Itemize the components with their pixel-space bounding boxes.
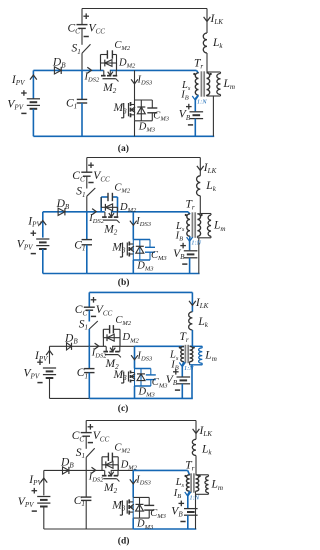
svg-text:IDS3: IDS3 bbox=[137, 74, 153, 86]
svg-text:DB: DB bbox=[60, 456, 74, 469]
svg-text:DB: DB bbox=[64, 332, 78, 345]
svg-text:(a): (a) bbox=[118, 143, 129, 154]
svg-text:IDS2: IDS2 bbox=[88, 213, 104, 225]
svg-text:S1: S1 bbox=[72, 43, 81, 56]
svg-text:CM2: CM2 bbox=[114, 183, 130, 195]
svg-text:Ls: Ls bbox=[181, 80, 191, 92]
svg-text:ILK: ILK bbox=[203, 162, 218, 175]
svg-text:CM3: CM3 bbox=[151, 250, 167, 262]
svg-text:C1: C1 bbox=[74, 239, 85, 252]
svg-text:Tr: Tr bbox=[180, 331, 189, 344]
svg-text:VCC: VCC bbox=[93, 430, 110, 443]
svg-text:1:N: 1:N bbox=[191, 240, 201, 247]
svg-text:(b): (b) bbox=[118, 277, 130, 288]
svg-text:CM2: CM2 bbox=[115, 315, 131, 327]
svg-text:ILK: ILK bbox=[210, 13, 225, 26]
svg-text:VB: VB bbox=[166, 374, 178, 387]
svg-text:Lk: Lk bbox=[212, 37, 223, 50]
svg-text:M2: M2 bbox=[102, 82, 117, 95]
svg-text:DB: DB bbox=[56, 198, 70, 211]
svg-text:VPV: VPV bbox=[18, 496, 35, 509]
svg-text:Lm: Lm bbox=[211, 479, 224, 492]
svg-text:C1: C1 bbox=[66, 98, 77, 111]
svg-text:VPV: VPV bbox=[7, 98, 24, 111]
svg-text:1:N: 1:N bbox=[189, 494, 199, 501]
svg-text:Ls: Ls bbox=[175, 477, 185, 489]
svg-text:VB: VB bbox=[171, 506, 183, 519]
svg-text:Lk: Lk bbox=[197, 316, 208, 329]
svg-text:VB: VB bbox=[173, 248, 185, 261]
svg-text:S1: S1 bbox=[76, 186, 85, 199]
svg-text:S1: S1 bbox=[79, 319, 88, 332]
svg-text:Tr: Tr bbox=[185, 460, 194, 473]
svg-text:CM3: CM3 bbox=[153, 110, 169, 122]
svg-text:IDS3: IDS3 bbox=[135, 474, 151, 486]
svg-text:1:N: 1:N bbox=[197, 98, 207, 105]
svg-text:DM3: DM3 bbox=[136, 519, 154, 531]
svg-text:VCC: VCC bbox=[93, 170, 110, 183]
svg-text:M3: M3 bbox=[111, 500, 126, 513]
svg-text:M3: M3 bbox=[113, 369, 128, 382]
svg-text:Lm: Lm bbox=[204, 350, 217, 363]
svg-text:IDS2: IDS2 bbox=[88, 471, 104, 483]
svg-text:DM3: DM3 bbox=[138, 387, 156, 399]
svg-text:S1: S1 bbox=[76, 447, 85, 460]
svg-text:CM2: CM2 bbox=[114, 40, 130, 52]
svg-text:VCC: VCC bbox=[96, 304, 113, 317]
svg-text:Ls: Ls bbox=[175, 221, 185, 233]
svg-text:ILK: ILK bbox=[199, 425, 214, 438]
svg-text:VB: VB bbox=[179, 109, 191, 122]
svg-text:DM3: DM3 bbox=[136, 261, 154, 273]
svg-text:Lk: Lk bbox=[201, 443, 212, 456]
svg-text:IPV: IPV bbox=[11, 74, 26, 87]
svg-text:Lm: Lm bbox=[213, 220, 226, 233]
svg-text:IPV: IPV bbox=[34, 350, 49, 363]
svg-text:IDS3: IDS3 bbox=[137, 350, 153, 362]
svg-text:(c): (c) bbox=[118, 403, 129, 414]
svg-text:(d): (d) bbox=[118, 536, 130, 547]
svg-text:ILK: ILK bbox=[195, 297, 210, 310]
svg-text:DM2: DM2 bbox=[122, 332, 140, 344]
svg-text:DM2: DM2 bbox=[120, 459, 138, 471]
svg-text:M2: M2 bbox=[103, 482, 118, 495]
svg-text:CM3: CM3 bbox=[150, 508, 166, 520]
svg-text:VCC: VCC bbox=[89, 22, 106, 35]
svg-text:1:N: 1:N bbox=[184, 365, 194, 372]
svg-text:CC: CC bbox=[75, 304, 88, 317]
svg-text:VPV: VPV bbox=[24, 368, 41, 381]
svg-text:DM2: DM2 bbox=[118, 58, 136, 70]
svg-text:Lm: Lm bbox=[223, 78, 236, 91]
svg-text:CM2: CM2 bbox=[114, 442, 130, 454]
svg-text:VPV: VPV bbox=[17, 239, 34, 252]
svg-text:Tr: Tr bbox=[194, 58, 203, 71]
svg-text:IDS2: IDS2 bbox=[84, 71, 100, 83]
svg-text:DM3: DM3 bbox=[138, 121, 156, 133]
svg-text:IPV: IPV bbox=[28, 474, 43, 487]
svg-text:M2: M2 bbox=[103, 223, 118, 236]
svg-text:Ls: Ls bbox=[169, 350, 179, 362]
svg-text:Tr: Tr bbox=[186, 199, 195, 212]
svg-text:M3: M3 bbox=[111, 242, 126, 255]
svg-text:Lk: Lk bbox=[205, 180, 216, 193]
svg-text:M3: M3 bbox=[113, 102, 128, 115]
svg-text:DB: DB bbox=[52, 56, 66, 69]
svg-text:DM2: DM2 bbox=[119, 202, 137, 214]
svg-text:IDS3: IDS3 bbox=[135, 216, 151, 228]
svg-text:IB: IB bbox=[173, 488, 182, 500]
svg-text:IPV: IPV bbox=[27, 215, 42, 228]
